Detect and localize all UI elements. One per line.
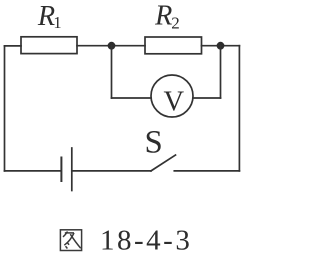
switch S lever <box>151 155 176 171</box>
battery long plate (positive) <box>71 148 73 191</box>
wire voltmeter drop left <box>111 46 113 98</box>
label R1 <box>37 1 62 32</box>
wire battery to switch <box>72 170 151 172</box>
voltmeter U1 circle <box>151 75 193 117</box>
label R2 <box>154 1 180 33</box>
node junction dot left <box>108 42 116 50</box>
resistor R1 <box>21 37 77 54</box>
wire voltmeter horizontal left <box>112 97 152 99</box>
wire bottom left <box>5 170 62 172</box>
caption glyph 图 (hand-drawn) <box>60 230 81 251</box>
battery short plate (negative) <box>60 158 62 182</box>
wire voltmeter drop right <box>220 46 222 98</box>
wire switch to bottom-right <box>174 170 239 172</box>
wire left vertical <box>4 46 6 171</box>
svg-text:1: 1 <box>53 13 61 32</box>
svg-text:R: R <box>37 1 55 32</box>
svg-text:S: S <box>145 125 163 161</box>
svg-text:R: R <box>154 1 172 32</box>
svg-text:V: V <box>164 86 185 117</box>
svg-text:18-4-3: 18-4-3 <box>100 225 192 257</box>
svg-text:2: 2 <box>171 13 180 32</box>
wire voltmeter horizontal right <box>193 97 221 99</box>
wire R1 to R2 <box>77 45 145 47</box>
wire R2 to top-right corner <box>202 45 240 47</box>
resistor R2 <box>145 37 202 54</box>
node junction dot right <box>217 42 225 50</box>
wire top-left horizontal <box>5 45 22 47</box>
wire right vertical <box>238 46 240 171</box>
